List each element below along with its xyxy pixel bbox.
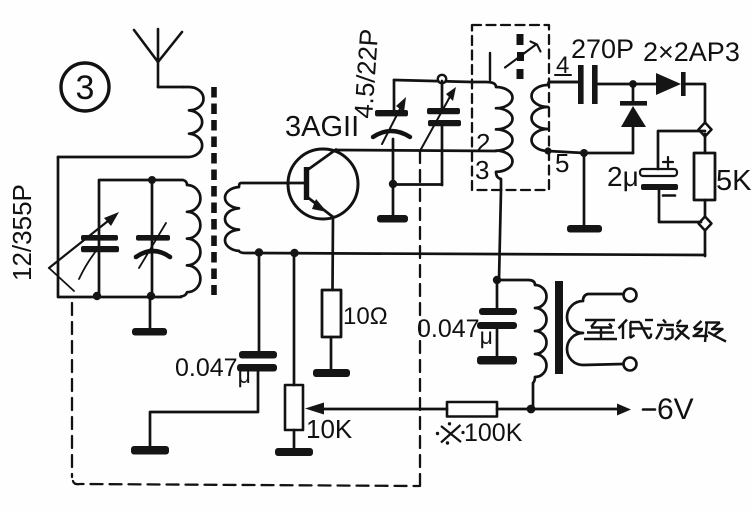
IF transformer T2 tuning core arrow — [505, 34, 541, 79]
svg-text:0.047μ: 0.047μ — [417, 315, 493, 349]
node dot R3 bottom — [699, 217, 712, 231]
node dot secondary bottom — [544, 147, 551, 154]
wire emitter-bias bus — [247, 253, 705, 255]
ground G6 — [275, 448, 313, 456]
trimmer capacitor C2 4.5/22P — [373, 80, 410, 183]
svg-text:5K: 5K — [716, 165, 752, 197]
node dot detector — [629, 80, 637, 88]
junction circle on top net — [438, 75, 446, 83]
svg-text:100K: 100K — [464, 419, 523, 447]
svg-text:2×2AP3: 2×2AP3 — [643, 37, 740, 67]
transistor Q1 circle — [288, 149, 358, 219]
label pointer line 12/355P — [49, 268, 74, 291]
svg-text:3: 3 — [76, 69, 95, 107]
node dot pin5 ground — [580, 149, 588, 157]
svg-text:4.5/22P: 4.5/22P — [348, 28, 384, 120]
capacitor C6 2u electrolytic — [607, 131, 705, 222]
trimmer capacitor C2 arrow — [382, 97, 406, 144]
capacitor C2b plates — [427, 81, 461, 185]
node dot bottom right branch — [147, 292, 155, 300]
transistor Q1 emitter with arrow — [306, 196, 333, 217]
node dot AF takeoff — [493, 276, 501, 284]
ground G2 — [131, 446, 169, 455]
pin label 1 — [489, 53, 491, 80]
node dot bottom left branch — [93, 292, 101, 300]
diode D1 (series) — [633, 72, 705, 128]
svg-text:10K: 10K — [306, 414, 353, 444]
transformer T1 primary upper winding (antenna coil) — [58, 87, 204, 157]
label 至低放级 (drawn glyph strokes) — [584, 320, 726, 343]
trimmer capacitor C1b arrow — [139, 223, 166, 268]
svg-text:5: 5 — [555, 148, 569, 178]
svg-text:0.047μ: 0.047μ — [175, 354, 251, 388]
node dot supply — [527, 405, 536, 414]
resistor R4 100K — [436, 402, 531, 447]
wire T3 primary bottom to supply node — [531, 408, 533, 411]
capacitor C5 270P — [549, 34, 634, 104]
wire pin5 — [548, 151, 633, 153]
node dot top of right branch — [148, 176, 156, 184]
node dot C3 top — [255, 248, 263, 256]
ground G5 under R1 — [313, 337, 350, 377]
ground G3 — [377, 184, 408, 223]
wire emitter down — [331, 217, 334, 290]
capacitor C4 0.047u — [417, 281, 517, 365]
wire tuning branch left — [98, 180, 101, 296]
potentiometer R2 wiper arrow — [305, 403, 447, 415]
IF transformer T2 shield (dashed box) — [472, 25, 549, 190]
trimmer capacitor C1b plates — [136, 235, 170, 257]
wire collector to IF transformer — [336, 150, 496, 151]
pin label 4 — [555, 52, 571, 79]
potentiometer R2 10K — [285, 253, 353, 448]
supply -6V — [531, 393, 694, 426]
resistor R1 10ohm — [322, 290, 388, 337]
ground G1 under tuning branch — [132, 297, 167, 336]
figure number 3 — [61, 63, 109, 111]
transformer T1 primary lower winding (tuned) — [100, 180, 200, 297]
svg-text:2μ: 2μ — [607, 161, 639, 192]
variable capacitor C1a arrow — [49, 212, 119, 268]
wire left side down — [58, 157, 181, 297]
transistor Q1 collector — [306, 150, 336, 172]
svg-text:6V: 6V — [657, 393, 694, 426]
audio transformer T3 core — [555, 281, 563, 374]
svg-text:3: 3 — [475, 155, 489, 185]
dashed enclosure bottom — [73, 481, 419, 486]
svg-text:12/355P: 12/355P — [7, 184, 37, 281]
svg-text:2: 2 — [476, 128, 490, 158]
transformer T1 core — [211, 87, 217, 295]
audio transformer T3 secondary — [567, 289, 637, 371]
wire top net to IF primary — [394, 80, 472, 82]
dashed enclosure left — [71, 303, 73, 477]
antenna — [134, 29, 182, 87]
transformer T1 secondary (base coupling coil) — [225, 183, 304, 253]
dashed enclosure right — [419, 150, 421, 486]
ground G4 — [567, 153, 602, 233]
audio transformer T3 primary — [497, 280, 547, 409]
capacitor C3 0.047u — [150, 253, 277, 446]
svg-text:10Ω: 10Ω — [343, 303, 388, 330]
node dot D1 output — [699, 123, 712, 137]
diode D2 (shunt) — [620, 84, 647, 153]
wire cap bottoms — [393, 183, 442, 186]
node dot cap bottom — [389, 180, 397, 188]
variable capacitor C1a plates — [81, 235, 119, 252]
wire antenna to coil — [158, 86, 183, 89]
capacitor C2b arrow — [420, 87, 456, 151]
svg-text:270P: 270P — [571, 34, 634, 64]
transistor Q1 base bar — [304, 167, 309, 200]
wire tuning branch right — [151, 180, 154, 296]
IF transformer T2 secondary — [532, 82, 580, 151]
node dot R2 top — [290, 249, 298, 257]
wire pin3 down — [499, 190, 501, 280]
IF transformer T2 primary — [472, 82, 513, 190]
resistor R3 5K — [694, 134, 752, 256]
